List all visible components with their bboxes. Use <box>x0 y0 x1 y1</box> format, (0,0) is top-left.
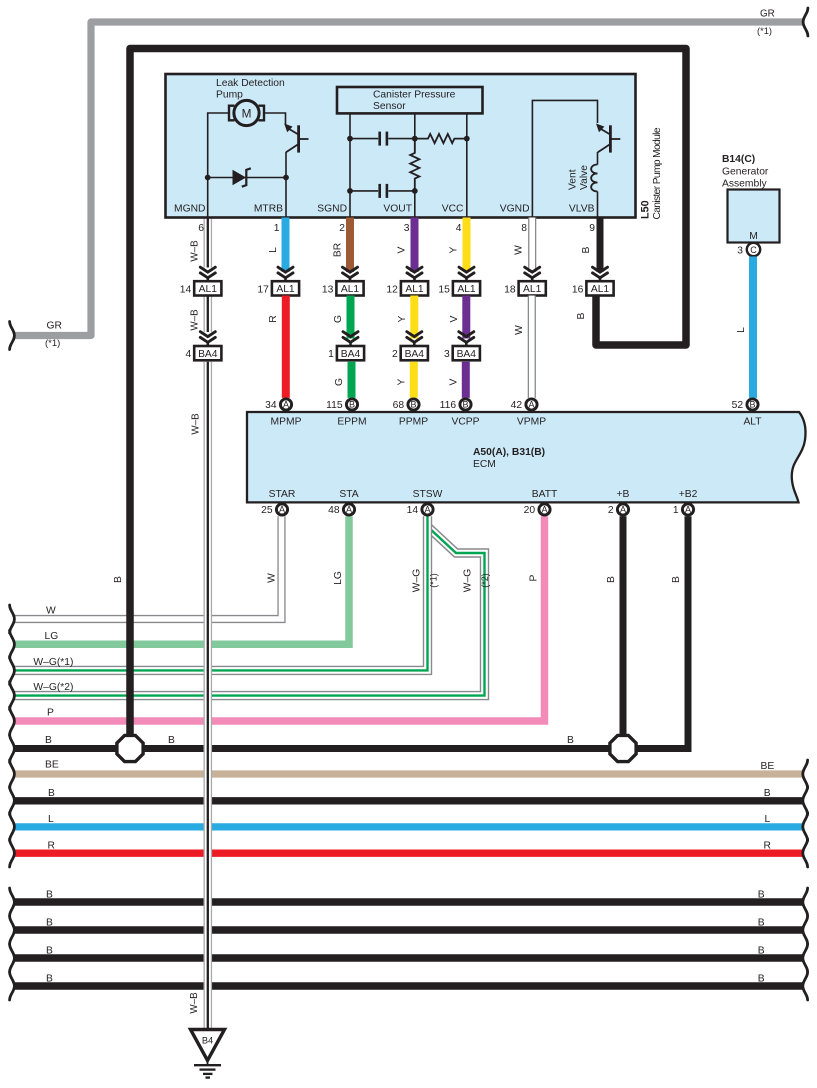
svg-text:A: A <box>424 505 430 515</box>
capacitor C1 <box>350 138 378 140</box>
wire Y from BA4-2 to pin 68 <box>410 362 418 398</box>
svg-text:VCPP: VCPP <box>451 417 479 428</box>
junction dot C1/R2 <box>412 136 418 142</box>
svg-text:Leak Detection: Leak Detection <box>216 78 285 89</box>
svg-text:W: W <box>514 325 525 335</box>
svg-text:4: 4 <box>185 349 191 360</box>
wire LG (pin 48 STA to left edge) <box>14 516 350 644</box>
torn end, wire W-G(*2) <box>10 682 15 710</box>
wire B horizontal 2 <box>14 898 805 905</box>
svg-text:B: B <box>410 400 416 410</box>
svg-text:2: 2 <box>608 505 614 516</box>
wire P (pin 20 BATT to left edge) <box>14 516 545 721</box>
svg-text:A: A <box>620 505 626 515</box>
svg-text:PPMP: PPMP <box>399 417 428 428</box>
wire sensor left leg SGND <box>349 113 351 217</box>
svg-text:B: B <box>168 735 175 746</box>
junction, B bus x border wire <box>117 735 143 761</box>
svg-text:G: G <box>334 378 345 386</box>
svg-text:1: 1 <box>328 349 334 360</box>
wire sensor mid leg <box>414 113 416 153</box>
svg-text:BA4: BA4 <box>341 349 361 360</box>
torn end, bus B <box>10 735 15 763</box>
svg-text:B: B <box>581 246 592 253</box>
svg-text:VOUT: VOUT <box>383 204 412 215</box>
svg-text:B: B <box>46 974 53 985</box>
svg-text:SGND: SGND <box>317 204 347 215</box>
svg-text:16: 16 <box>572 284 584 295</box>
svg-text:B: B <box>758 974 765 985</box>
svg-text:L: L <box>765 814 771 825</box>
wire stub BR pin 2 SGND <box>346 218 354 273</box>
svg-text:B: B <box>576 312 587 319</box>
svg-text:(*1): (*1) <box>45 338 60 349</box>
svg-text:+B: +B <box>617 489 630 500</box>
wire vent valve to VLVB <box>597 192 599 218</box>
pin 3 C of generator <box>747 243 760 256</box>
svg-text:B: B <box>45 735 52 746</box>
arrow into BA4 <box>459 332 474 337</box>
svg-text:W: W <box>46 606 56 617</box>
svg-text:Vent: Vent <box>568 169 579 190</box>
wire B horizontal 4 <box>14 954 805 961</box>
arrow into BA4 <box>407 332 422 337</box>
wire VGND up and over to vent valve <box>532 100 597 217</box>
svg-text:AL1: AL1 <box>341 284 360 295</box>
svg-text:VLVB: VLVB <box>569 204 595 215</box>
transistor Q2 (vent valve driver) <box>609 125 612 152</box>
pin 52 (B) <box>747 399 758 410</box>
svg-text:BE: BE <box>761 761 775 772</box>
svg-text:Y: Y <box>397 315 408 322</box>
svg-text:A: A <box>528 400 534 410</box>
torn end, wire W <box>10 605 15 633</box>
svg-text:3: 3 <box>404 223 410 234</box>
pin 14 (A) <box>422 504 433 515</box>
svg-text:B: B <box>567 735 574 746</box>
svg-text:A: A <box>283 400 289 410</box>
svg-text:52: 52 <box>732 400 744 411</box>
svg-text:48: 48 <box>328 505 340 516</box>
svg-text:V: V <box>449 378 460 385</box>
svg-text:Canister Pump Module: Canister Pump Module <box>652 127 663 219</box>
wire B horizontal 3 <box>14 926 805 933</box>
arrow into AL1 <box>459 267 474 272</box>
wire stub V pin 3 VOUT <box>411 218 419 273</box>
svg-text:9: 9 <box>589 223 595 234</box>
wire B ground bus with riser to +B2 <box>14 516 689 748</box>
wire W-B from MGND through AL1-14 / BA4-4 to ground B4 <box>204 218 213 268</box>
svg-text:W–G: W–G <box>412 569 423 592</box>
svg-text:(*1): (*1) <box>757 26 772 36</box>
wire Y from AL1-12 to BA4-2 <box>410 296 418 339</box>
svg-text:2: 2 <box>339 223 345 234</box>
svg-text:V: V <box>397 246 408 253</box>
svg-text:AL1: AL1 <box>276 284 295 295</box>
svg-text:Generator: Generator <box>722 167 769 178</box>
svg-text:(*2): (*2) <box>480 573 490 588</box>
arrow into AL1 <box>343 267 358 272</box>
connector AL1 pin 17 <box>272 281 299 295</box>
arrow into BA4 <box>343 332 358 337</box>
svg-text:ECM: ECM <box>473 459 496 470</box>
wire V from BA4-3 to pin 116 <box>462 362 470 398</box>
svg-text:3: 3 <box>737 246 743 257</box>
svg-text:LG: LG <box>45 631 59 642</box>
pin 42 (A) <box>526 399 537 410</box>
svg-text:+B2: +B2 <box>679 489 698 500</box>
svg-text:STAR: STAR <box>269 489 296 500</box>
pin 34 (A) <box>280 399 291 410</box>
junction dot sensor SGND/C2 <box>347 188 353 194</box>
svg-text:18: 18 <box>504 284 516 295</box>
svg-text:L50: L50 <box>640 200 652 219</box>
svg-text:P: P <box>47 708 54 719</box>
svg-text:B: B <box>113 576 124 583</box>
svg-text:MPMP: MPMP <box>271 417 302 428</box>
pin 2 (A) <box>617 504 628 515</box>
wire L horizontal <box>14 823 805 830</box>
svg-text:L: L <box>48 814 54 825</box>
ECM box A50(A) B31(B) <box>247 412 805 502</box>
wire W (pin 25 STAR to left edge) <box>14 516 282 619</box>
svg-text:20: 20 <box>524 505 536 516</box>
svg-text:B: B <box>349 400 355 410</box>
svg-text:W: W <box>267 573 278 583</box>
svg-text:6: 6 <box>198 223 204 234</box>
wire transistor Q1 emitter to MTRB <box>285 152 287 218</box>
wire stub L pin 1 MTRB <box>282 218 290 273</box>
svg-text:GR: GR <box>760 9 775 20</box>
svg-text:BR: BR <box>333 243 344 257</box>
connector AL1 pin 18 <box>519 281 546 295</box>
svg-text:M: M <box>242 106 252 120</box>
svg-text:B: B <box>46 946 53 957</box>
svg-text:13: 13 <box>322 284 334 295</box>
arrow into AL1 <box>200 267 215 272</box>
zener diode D1 <box>233 170 247 186</box>
wire BE <box>14 770 805 777</box>
svg-text:BA4: BA4 <box>198 349 218 360</box>
pin 25 (A) <box>276 504 287 515</box>
svg-text:2: 2 <box>392 349 398 360</box>
svg-text:17: 17 <box>257 284 269 295</box>
svg-text:B: B <box>764 788 771 799</box>
svg-text:B: B <box>758 890 765 901</box>
vent valve coil <box>591 165 597 192</box>
svg-text:AL1: AL1 <box>591 284 610 295</box>
svg-text:15: 15 <box>438 284 450 295</box>
svg-text:A: A <box>346 505 352 515</box>
wire L generator to pin 52 ALT <box>749 257 757 398</box>
svg-text:12: 12 <box>386 284 398 295</box>
wire stub W pin 8 VGND <box>528 218 536 273</box>
svg-text:Assembly: Assembly <box>722 179 767 190</box>
svg-text:W: W <box>514 245 525 255</box>
svg-text:R: R <box>48 841 55 852</box>
svg-text:3: 3 <box>444 349 450 360</box>
wire R from AL1-17 to pin 34 <box>282 296 290 398</box>
connector BA4 pin 4 <box>194 346 221 360</box>
svg-text:Sensor: Sensor <box>373 101 406 112</box>
svg-text:B: B <box>46 918 53 929</box>
resistor R1 horizontal <box>415 134 467 143</box>
svg-text:BATT: BATT <box>532 489 558 500</box>
svg-text:A: A <box>685 505 691 515</box>
wire motor left to MGND rail <box>208 113 229 218</box>
svg-text:BE: BE <box>45 760 59 771</box>
wire G from AL1-13 to BA4-1 <box>347 296 355 339</box>
connector BA4 pin 3 <box>453 346 480 360</box>
svg-text:C: C <box>750 245 757 255</box>
pin 116 (B) <box>460 399 471 410</box>
svg-text:GR: GR <box>47 321 62 332</box>
svg-text:B: B <box>46 890 53 901</box>
motor M leak detection pump <box>234 100 259 125</box>
svg-text:Pump: Pump <box>216 90 243 101</box>
torn end, wire GR right <box>803 8 808 36</box>
svg-text:Y: Y <box>449 246 460 253</box>
wire W-G(*1) (pin 14 STSW to left edge) <box>14 516 428 670</box>
pin 1 (A) <box>682 504 693 515</box>
svg-text:R: R <box>268 315 279 322</box>
transistor Q1 (pump driver) <box>297 125 300 152</box>
junction, B bus x +B wire <box>610 735 636 761</box>
svg-text:B14(C): B14(C) <box>722 154 755 165</box>
svg-text:AL1: AL1 <box>523 284 542 295</box>
pin 20 (A) <box>539 504 550 515</box>
junction dot sensor SGND/C1 <box>347 136 353 142</box>
svg-text:R: R <box>764 841 771 852</box>
wire B main loop from AL1-16 around top border to bus junction <box>130 49 686 749</box>
svg-text:116: 116 <box>440 400 457 411</box>
canister pressure sensor box <box>337 87 483 113</box>
svg-text:L: L <box>736 327 747 333</box>
svg-text:LG: LG <box>333 571 344 585</box>
svg-text:Y: Y <box>397 378 408 385</box>
svg-text:A: A <box>279 505 285 515</box>
svg-text:B: B <box>462 400 468 410</box>
arrow into AL1 <box>407 267 422 272</box>
connector AL1 pin 12 <box>401 281 428 295</box>
svg-text:P: P <box>529 574 540 581</box>
svg-text:BA4: BA4 <box>405 349 425 360</box>
svg-text:W–B: W–B <box>190 240 201 262</box>
svg-text:M: M <box>749 231 758 242</box>
svg-text:V: V <box>449 315 460 322</box>
svg-text:ALT: ALT <box>743 417 762 428</box>
wire VOUT leg <box>414 191 416 218</box>
torn end, wire GR left <box>10 322 15 350</box>
svg-text:W–B: W–B <box>190 309 201 331</box>
svg-text:W–G(*2): W–G(*2) <box>33 682 73 693</box>
connector AL1 pin 15 <box>453 281 480 295</box>
torn end, wire LG <box>10 630 15 658</box>
ground B4 <box>191 1030 225 1061</box>
svg-text:A50(A), B31(B): A50(A), B31(B) <box>473 447 545 458</box>
svg-text:BA4: BA4 <box>457 349 477 360</box>
svg-text:W–B: W–B <box>189 992 200 1014</box>
connector BA4 pin 2 <box>401 346 428 360</box>
svg-text:14: 14 <box>407 505 419 516</box>
torn end, wire P <box>10 707 15 735</box>
connector BA4 pin 1 <box>337 346 364 360</box>
svg-text:8: 8 <box>521 223 527 234</box>
arrow into AL1 <box>525 267 540 272</box>
svg-text:B4: B4 <box>202 1036 213 1046</box>
svg-text:AL1: AL1 <box>405 284 424 295</box>
junction dot MTRB rail <box>283 175 289 181</box>
svg-text:B: B <box>606 576 617 583</box>
svg-text:B: B <box>48 788 55 799</box>
wire sensor right leg VCC <box>466 113 468 217</box>
svg-text:Valve: Valve <box>579 165 590 190</box>
resistor R2 vertical <box>410 139 419 191</box>
svg-text:L: L <box>268 247 279 253</box>
svg-text:EPPM: EPPM <box>337 417 366 428</box>
wire diode rail <box>208 177 286 179</box>
svg-text:34: 34 <box>265 400 277 411</box>
wire motor right to transistor <box>264 113 286 125</box>
arrow into AL1 <box>593 267 608 272</box>
svg-text:25: 25 <box>261 505 273 516</box>
connector AL1 pin 13 <box>336 281 363 295</box>
svg-text:B: B <box>749 400 755 410</box>
svg-text:AL1: AL1 <box>457 284 476 295</box>
svg-text:B: B <box>671 576 682 583</box>
arrow into BA4 <box>200 332 215 337</box>
wire stub B pin 9 VLVB <box>597 218 604 273</box>
connector AL1 pin 14 <box>194 281 221 295</box>
svg-text:B: B <box>758 946 765 957</box>
wire stub Y pin 4 VCC <box>463 218 471 273</box>
svg-text:STSW: STSW <box>413 489 443 500</box>
svg-text:42: 42 <box>511 400 523 411</box>
svg-text:A: A <box>541 505 547 515</box>
wire B horizontal 1 <box>14 797 805 804</box>
svg-text:B: B <box>758 918 765 929</box>
arrow into AL1 <box>278 267 293 272</box>
svg-text:W–G(*1): W–G(*1) <box>33 657 73 668</box>
wire V from AL1-15 to BA4-3 <box>462 296 470 339</box>
wire B horizontal 5 <box>14 982 805 989</box>
svg-text:W–B: W–B <box>191 413 202 435</box>
junction dot R2/VOUT <box>412 188 418 194</box>
junction dot MGND rail <box>205 175 211 181</box>
svg-text:MTRB: MTRB <box>254 204 283 215</box>
wire B from pin 2 +B down to junction <box>620 516 627 748</box>
svg-text:AL1: AL1 <box>199 284 218 295</box>
connector AL1 pin 16 <box>586 281 613 295</box>
svg-text:68: 68 <box>393 400 405 411</box>
svg-text:1: 1 <box>673 505 679 516</box>
pin 115 (B) <box>346 399 357 410</box>
pin 68 (B) <box>408 399 419 410</box>
svg-text:VCC: VCC <box>442 204 464 215</box>
wire R horizontal <box>14 850 805 857</box>
canister pump module L50 box <box>166 74 636 218</box>
svg-text:(*1): (*1) <box>429 573 439 588</box>
wire G from BA4-1 to pin 115 <box>348 362 356 398</box>
svg-text:VPMP: VPMP <box>517 417 546 428</box>
svg-text:115: 115 <box>326 400 343 411</box>
svg-text:14: 14 <box>180 284 192 295</box>
svg-text:1: 1 <box>274 223 280 234</box>
svg-text:STA: STA <box>339 489 358 500</box>
wire GR (*1) <box>14 22 804 336</box>
svg-text:W–G: W–G <box>463 569 474 592</box>
torn end, wire W-G(*1) <box>10 656 15 684</box>
pin 48 (A) <box>343 504 354 515</box>
svg-text:Canister Pressure: Canister Pressure <box>373 90 456 101</box>
capacitor C2 <box>350 190 378 192</box>
svg-text:4: 4 <box>456 223 462 234</box>
wire W from AL1-18 to pin 42 <box>528 296 536 398</box>
wire W-G(*2) branch of STSW to left edge <box>14 527 485 696</box>
junction dot R1/VCC <box>464 136 470 142</box>
svg-text:MGND: MGND <box>174 204 205 215</box>
svg-text:G: G <box>333 315 344 323</box>
svg-text:VGND: VGND <box>500 204 530 215</box>
